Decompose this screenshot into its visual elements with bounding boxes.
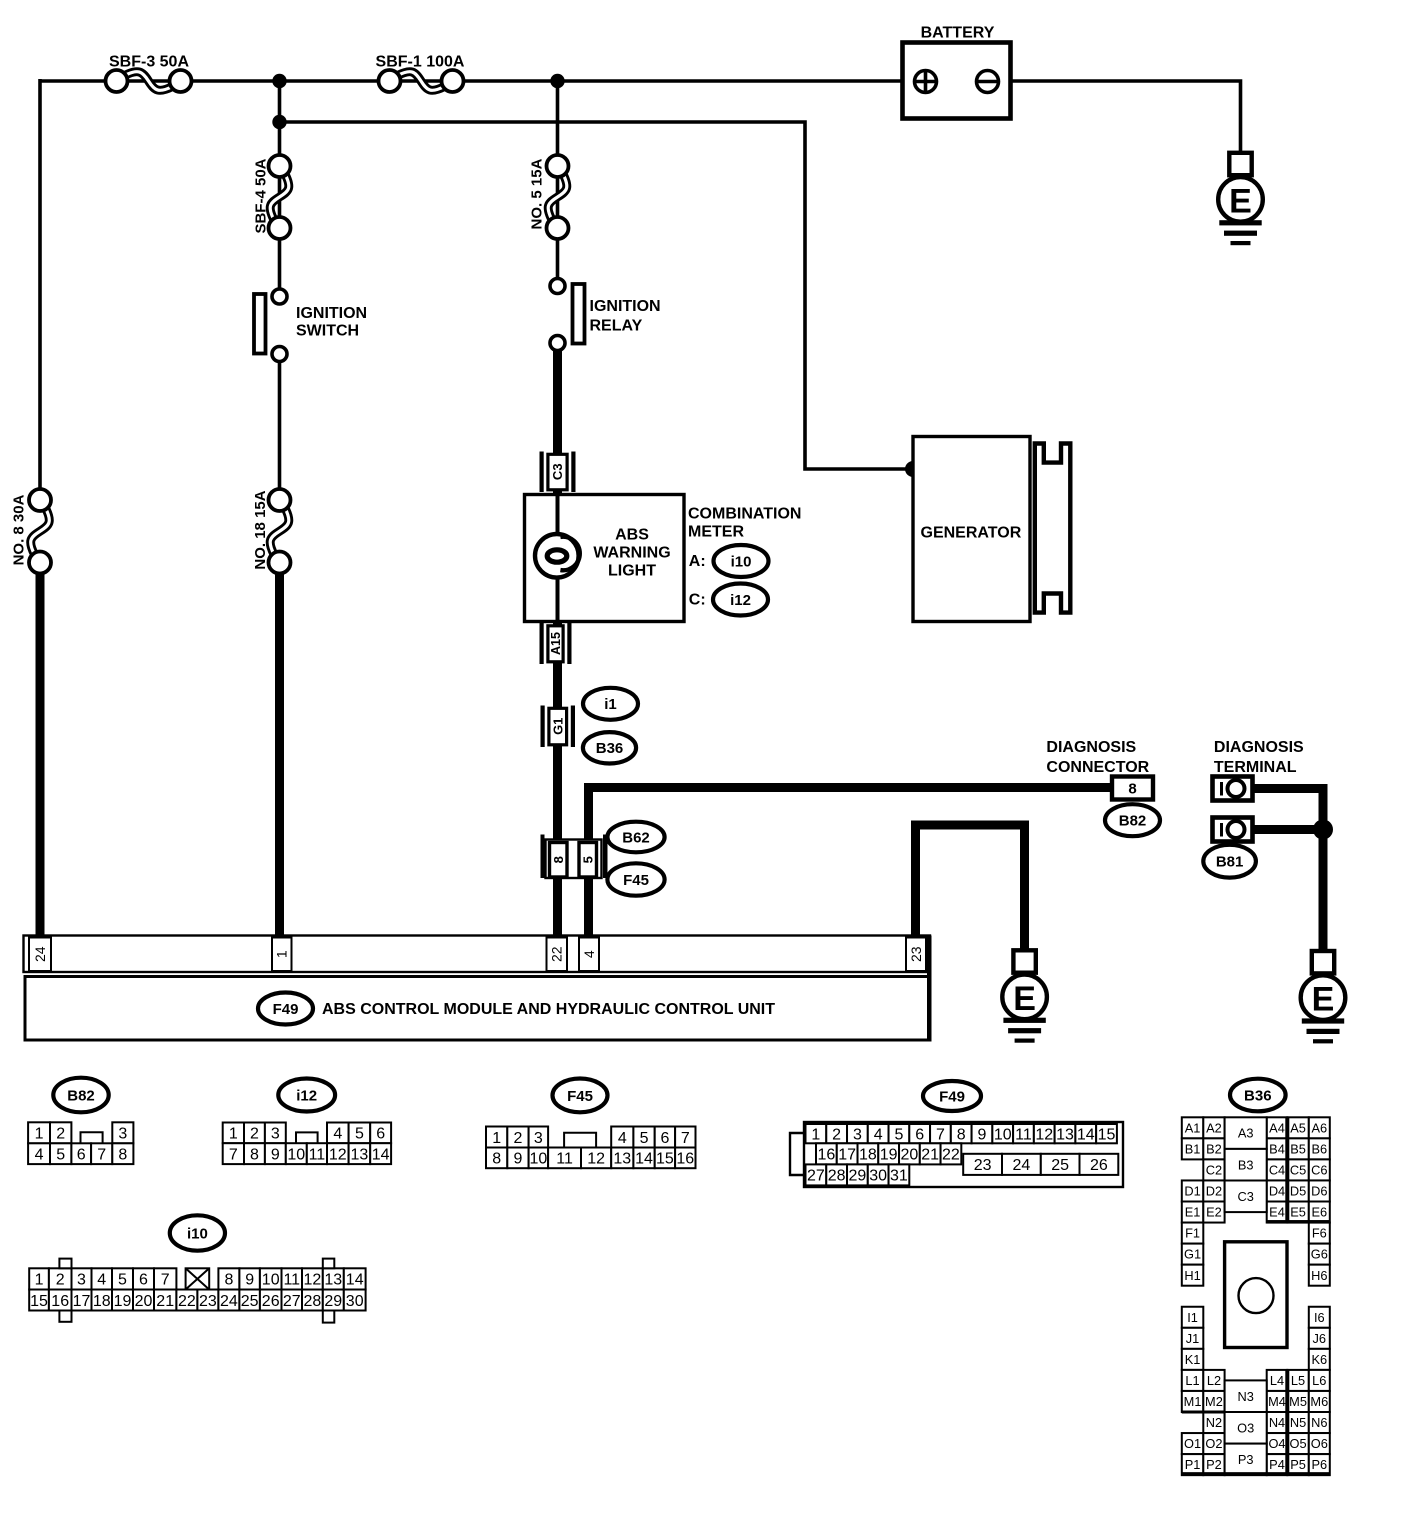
svg-text:C4: C4 [1269, 1163, 1285, 1178]
svg-text:3: 3 [118, 1126, 127, 1143]
wire: ABS warning light to module pin 22 (thick) [553, 615, 562, 938]
node C: i12 [689, 584, 768, 616]
module pin 23 [906, 938, 926, 972]
connector C3 [540, 452, 576, 493]
svg-text:P4: P4 [1269, 1457, 1285, 1472]
svg-text:29: 29 [849, 1168, 867, 1185]
svg-text:8: 8 [1128, 781, 1136, 798]
module pin 1 [272, 938, 292, 972]
svg-text:5: 5 [894, 1126, 903, 1143]
svg-text:D1: D1 [1184, 1184, 1200, 1199]
svg-text:21: 21 [921, 1147, 939, 1164]
svg-text:14: 14 [635, 1151, 653, 1168]
node F45 [607, 863, 664, 895]
connector pinout i12 oval [278, 1079, 335, 1112]
svg-text:16: 16 [676, 1151, 694, 1168]
ground (diagnosis terminal) [1301, 951, 1346, 1043]
svg-text:23: 23 [974, 1157, 992, 1174]
ground (module pin 23) [1002, 950, 1047, 1042]
connector pinout B82 grid [28, 1122, 133, 1164]
svg-text:L1: L1 [1185, 1373, 1199, 1388]
svg-text:K1: K1 [1185, 1352, 1201, 1367]
svg-text:F45: F45 [623, 872, 649, 889]
svg-text:4: 4 [333, 1126, 342, 1143]
svg-text:13: 13 [324, 1272, 342, 1289]
connector pinout F45 grid [486, 1127, 696, 1169]
svg-text:8: 8 [224, 1272, 233, 1289]
svg-text:14: 14 [372, 1146, 390, 1163]
svg-text:B81: B81 [1216, 854, 1244, 871]
svg-text:4: 4 [581, 950, 597, 958]
svg-text:1: 1 [229, 1126, 238, 1143]
svg-text:N2: N2 [1206, 1415, 1222, 1430]
svg-text:M5: M5 [1289, 1394, 1307, 1409]
svg-text:1: 1 [274, 950, 290, 958]
svg-text:NO. 8 30A: NO. 8 30A [11, 494, 28, 565]
svg-text:E2: E2 [1206, 1205, 1222, 1220]
diagnosis terminal contact 1 [1213, 777, 1253, 801]
svg-text:2: 2 [56, 1126, 65, 1143]
fuse SBF-3 50A [106, 54, 192, 93]
svg-text:22: 22 [178, 1293, 196, 1310]
connector pinout B82 oval [53, 1078, 108, 1113]
svg-text:COMBINATION: COMBINATION [688, 506, 801, 523]
svg-text:4: 4 [97, 1272, 106, 1289]
svg-text:SBF-3 50A: SBF-3 50A [109, 54, 189, 71]
fuse SBF-4 50A [252, 155, 290, 239]
svg-text:M1: M1 [1184, 1394, 1202, 1409]
svg-text:9: 9 [513, 1151, 522, 1168]
junction dot on second bus [272, 115, 286, 129]
svg-text:O2: O2 [1205, 1436, 1222, 1451]
svg-text:17: 17 [838, 1147, 856, 1164]
svg-text:8: 8 [492, 1151, 501, 1168]
svg-text:2: 2 [56, 1272, 65, 1289]
connector pinout i12 grid [223, 1123, 391, 1165]
svg-text:15: 15 [1098, 1126, 1116, 1143]
fuse SBF-1 100A [376, 54, 465, 93]
svg-text:C3: C3 [1237, 1189, 1253, 1204]
svg-text:1: 1 [492, 1130, 501, 1147]
svg-text:IGNITION: IGNITION [590, 298, 661, 315]
wire: NO.5 branch down to ignition relay [556, 81, 560, 280]
svg-text:30: 30 [346, 1293, 364, 1310]
svg-text:31: 31 [890, 1168, 908, 1185]
svg-text:5: 5 [355, 1126, 364, 1143]
wire: NO.18 fuse to module pin 1 (thick) [275, 570, 284, 938]
svg-text:3: 3 [534, 1130, 543, 1147]
connector pinout i10 grid [29, 1259, 365, 1323]
svg-text:G1: G1 [550, 718, 565, 735]
svg-text:B82: B82 [67, 1087, 95, 1104]
svg-text:12: 12 [1035, 1126, 1053, 1143]
svg-text:24: 24 [32, 946, 48, 962]
svg-text:18: 18 [859, 1147, 877, 1164]
svg-text:i12: i12 [730, 592, 751, 609]
svg-text:G6: G6 [1311, 1247, 1328, 1262]
svg-text:8: 8 [957, 1126, 966, 1143]
combination meter box with ABS warning light [525, 495, 685, 622]
connector pinout F45 oval [553, 1079, 608, 1113]
svg-text:IGNITION: IGNITION [296, 305, 367, 322]
svg-text:I6: I6 [1314, 1310, 1325, 1325]
svg-text:C3: C3 [550, 463, 565, 480]
module pin 22 [547, 938, 568, 972]
node i1 [583, 688, 638, 720]
svg-text:7: 7 [936, 1126, 945, 1143]
svg-text:RELAY: RELAY [590, 318, 643, 335]
svg-text:F6: F6 [1312, 1226, 1327, 1241]
svg-text:E: E [1013, 980, 1036, 1018]
svg-text:9: 9 [978, 1126, 987, 1143]
svg-text:8: 8 [250, 1146, 259, 1163]
svg-text:K6: K6 [1311, 1352, 1327, 1367]
wire: diagnosis connector branch (thick) [589, 788, 1113, 941]
svg-text:6: 6 [915, 1126, 924, 1143]
svg-text:7: 7 [97, 1146, 106, 1163]
svg-text:3: 3 [77, 1272, 86, 1289]
svg-text:B36: B36 [596, 740, 624, 757]
fuse NO. 18 15A [252, 489, 291, 574]
svg-text:26: 26 [262, 1293, 280, 1310]
svg-text:6: 6 [660, 1130, 669, 1147]
svg-text:ABS CONTROL MODULE AND HYDRAUL: ABS CONTROL MODULE AND HYDRAULIC CONTROL… [322, 1001, 775, 1018]
svg-text:28: 28 [304, 1293, 322, 1310]
svg-text:O6: O6 [1311, 1436, 1328, 1451]
node B36 [583, 732, 636, 763]
svg-text:SWITCH: SWITCH [296, 323, 359, 340]
svg-text:B36: B36 [1244, 1087, 1272, 1104]
svg-text:23: 23 [199, 1293, 217, 1310]
svg-text:4: 4 [35, 1146, 44, 1163]
wire: ignition switch to NO.18 fuse [278, 360, 282, 492]
svg-text:O5: O5 [1290, 1436, 1307, 1451]
svg-text:B82: B82 [1119, 813, 1147, 830]
svg-text:6: 6 [77, 1146, 86, 1163]
svg-text:28: 28 [828, 1168, 846, 1185]
svg-text:30: 30 [869, 1168, 887, 1185]
svg-text:i10: i10 [187, 1225, 208, 1242]
svg-text:25: 25 [241, 1293, 259, 1310]
svg-text:10: 10 [262, 1272, 280, 1289]
svg-text:A6: A6 [1311, 1120, 1327, 1135]
svg-text:4: 4 [874, 1126, 883, 1143]
wire: SBF-4 branch down to ignition switch [278, 122, 282, 290]
svg-text:22: 22 [942, 1147, 960, 1164]
svg-text:11: 11 [1015, 1126, 1032, 1143]
wire: second bus to generator [280, 81, 914, 469]
svg-text:J6: J6 [1313, 1331, 1327, 1346]
svg-text:5: 5 [56, 1146, 65, 1163]
wire: top battery bus [40, 79, 915, 83]
svg-text:9: 9 [271, 1146, 280, 1163]
svg-text:16: 16 [51, 1293, 69, 1310]
svg-text:D5: D5 [1290, 1184, 1306, 1199]
svg-text:B6: B6 [1311, 1141, 1327, 1156]
svg-text:N3: N3 [1237, 1389, 1253, 1404]
junction dot at SBF-4 branch [272, 74, 286, 88]
svg-text:G1: G1 [1184, 1247, 1201, 1262]
svg-text:27: 27 [283, 1293, 301, 1310]
svg-text:17: 17 [73, 1293, 91, 1310]
svg-text:DIAGNOSIS: DIAGNOSIS [1046, 739, 1136, 756]
svg-text:C6: C6 [1311, 1163, 1327, 1178]
svg-text:I1: I1 [1187, 1310, 1198, 1325]
ground (battery) [1218, 153, 1263, 245]
svg-text:P6: P6 [1311, 1457, 1327, 1472]
svg-text:B4: B4 [1269, 1141, 1285, 1156]
svg-text:D6: D6 [1311, 1184, 1327, 1199]
module pin 4 [579, 938, 599, 972]
svg-text:F49: F49 [273, 1001, 299, 1018]
svg-text:22: 22 [549, 946, 565, 962]
svg-text:18: 18 [93, 1293, 111, 1310]
svg-text:N4: N4 [1269, 1415, 1285, 1430]
svg-text:A4: A4 [1269, 1120, 1285, 1135]
svg-text:NO. 18 15A: NO. 18 15A [252, 490, 269, 569]
svg-text:DIAGNOSIS: DIAGNOSIS [1214, 739, 1304, 756]
wire: diagnosis terminal 2 to junction (thick) [1252, 825, 1323, 834]
connector pinout F49 oval [923, 1081, 981, 1111]
svg-text:C2: C2 [1206, 1163, 1222, 1178]
svg-text:P3: P3 [1238, 1452, 1254, 1467]
connector pinout F49 grid [790, 1122, 1123, 1187]
svg-text:F1: F1 [1185, 1226, 1200, 1241]
svg-text:21: 21 [156, 1293, 174, 1310]
svg-text:3: 3 [271, 1126, 280, 1143]
svg-text:A15: A15 [549, 632, 563, 655]
svg-text:9: 9 [245, 1272, 254, 1289]
svg-text:5: 5 [118, 1272, 127, 1289]
svg-text:B62: B62 [622, 829, 650, 846]
svg-text:D2: D2 [1206, 1184, 1222, 1199]
wire: NO.8 fuse to module pin 24 (thick) [36, 570, 45, 938]
wire: ignition relay to ABS warning light (thick) [553, 350, 562, 500]
junction dot at diagnosis terminal 2 [1313, 820, 1333, 840]
svg-text:10: 10 [529, 1151, 547, 1168]
connector pinout i10 oval [170, 1215, 225, 1250]
svg-text:8: 8 [551, 856, 566, 863]
connector A15 [540, 623, 572, 664]
svg-text:26: 26 [1090, 1157, 1108, 1174]
connector pinout B36 oval [1230, 1079, 1286, 1112]
svg-text:1: 1 [811, 1126, 820, 1143]
svg-text:N6: N6 [1311, 1415, 1327, 1430]
diagnosis connector label [1046, 739, 1149, 776]
svg-text:O4: O4 [1268, 1436, 1285, 1451]
svg-text:P2: P2 [1206, 1457, 1222, 1472]
svg-text:N5: N5 [1290, 1415, 1306, 1430]
svg-text:24: 24 [1013, 1157, 1031, 1174]
svg-text:i12: i12 [296, 1087, 317, 1104]
wire: battery minus to ground [998, 81, 1241, 153]
svg-text:GENERATOR: GENERATOR [921, 525, 1022, 542]
svg-text:11: 11 [283, 1272, 300, 1289]
svg-text:H6: H6 [1311, 1268, 1327, 1283]
svg-text:M6: M6 [1310, 1394, 1328, 1409]
svg-text:13: 13 [351, 1146, 369, 1163]
svg-text:F49: F49 [939, 1088, 965, 1105]
svg-text:H1: H1 [1184, 1268, 1200, 1283]
svg-text:M2: M2 [1205, 1394, 1223, 1409]
svg-text:B1: B1 [1185, 1141, 1201, 1156]
svg-text:E5: E5 [1290, 1205, 1306, 1220]
svg-text:29: 29 [324, 1293, 342, 1310]
svg-text:ABS: ABS [615, 527, 649, 544]
svg-text:6: 6 [139, 1272, 148, 1289]
svg-text:O3: O3 [1237, 1420, 1254, 1435]
generator [913, 437, 1070, 622]
svg-text:14: 14 [346, 1272, 364, 1289]
svg-text:1: 1 [35, 1272, 44, 1289]
svg-text:B3: B3 [1238, 1157, 1254, 1172]
diagnosis terminal label [1214, 739, 1304, 776]
svg-text:15: 15 [656, 1151, 674, 1168]
svg-text:F45: F45 [567, 1088, 593, 1105]
svg-text:E: E [1312, 981, 1335, 1019]
svg-text:E: E [1229, 182, 1252, 220]
svg-text:11: 11 [556, 1151, 573, 1168]
svg-text:P5: P5 [1290, 1457, 1306, 1472]
svg-text:L5: L5 [1291, 1373, 1305, 1388]
node A: i10 [689, 545, 769, 577]
wire: diagnosis terminal 1 to ground (thick) [1252, 789, 1323, 952]
svg-text:8: 8 [118, 1146, 127, 1163]
fuse NO. 8 30A [11, 489, 51, 574]
node B62 [607, 822, 664, 853]
svg-text:5: 5 [640, 1130, 649, 1147]
svg-text:E4: E4 [1269, 1205, 1285, 1220]
svg-text:A5: A5 [1290, 1120, 1306, 1135]
svg-text:TERMINAL: TERMINAL [1214, 759, 1297, 776]
svg-text:BATTERY: BATTERY [921, 25, 995, 42]
svg-text:E6: E6 [1311, 1205, 1327, 1220]
ignition switch [254, 289, 367, 362]
ignition relay [550, 279, 661, 351]
junction dot at generator input [905, 461, 921, 477]
svg-text:i10: i10 [731, 553, 752, 570]
module designator F49 [258, 993, 313, 1025]
svg-text:10: 10 [287, 1146, 305, 1163]
wire: left branch down to NO.8 fuse [38, 79, 42, 490]
svg-text:C:: C: [689, 592, 706, 609]
svg-text:23: 23 [908, 946, 924, 962]
node B82 [1105, 804, 1160, 836]
svg-text:20: 20 [901, 1147, 919, 1164]
svg-text:L4: L4 [1270, 1373, 1284, 1388]
svg-text:2: 2 [250, 1126, 259, 1143]
svg-text:WARNING: WARNING [593, 545, 670, 562]
svg-text:14: 14 [1077, 1126, 1095, 1143]
combination meter label [688, 506, 801, 541]
svg-text:13: 13 [1056, 1126, 1074, 1143]
svg-text:SBF-1 100A: SBF-1 100A [376, 54, 465, 71]
svg-text:A1: A1 [1185, 1120, 1201, 1135]
svg-text:27: 27 [807, 1168, 825, 1185]
svg-text:NO. 5 15A: NO. 5 15A [528, 158, 545, 229]
svg-text:1: 1 [35, 1126, 44, 1143]
svg-text:12: 12 [329, 1146, 347, 1163]
svg-text:C5: C5 [1290, 1163, 1306, 1178]
svg-text:7: 7 [161, 1272, 170, 1289]
wire: module pin 23 to ground (thick) [916, 825, 1025, 951]
svg-text:A3: A3 [1238, 1126, 1254, 1141]
svg-text:3: 3 [853, 1126, 862, 1143]
svg-text:A:: A: [689, 553, 706, 570]
svg-text:SBF-4 50A: SBF-4 50A [252, 158, 269, 233]
diagnosis terminal contact 2 [1213, 818, 1253, 842]
svg-text:20: 20 [135, 1293, 153, 1310]
svg-text:i1: i1 [604, 696, 617, 713]
svg-text:2: 2 [832, 1126, 841, 1143]
svg-text:O1: O1 [1184, 1436, 1201, 1451]
junction dot at NO.5 branch [550, 74, 564, 88]
svg-text:7: 7 [681, 1130, 690, 1147]
connector pinout B36 grid [1182, 1117, 1330, 1475]
svg-text:10: 10 [994, 1126, 1012, 1143]
svg-text:B2: B2 [1206, 1141, 1222, 1156]
battery [903, 25, 1011, 119]
svg-text:D4: D4 [1269, 1184, 1285, 1199]
svg-text:24: 24 [220, 1293, 238, 1310]
svg-text:6: 6 [376, 1126, 385, 1143]
svg-text:16: 16 [817, 1147, 835, 1164]
diagnosis connector pin 8 [1112, 777, 1153, 800]
svg-text:25: 25 [1051, 1157, 1069, 1174]
svg-text:7: 7 [229, 1146, 238, 1163]
module pin 24 [29, 938, 51, 972]
svg-text:12: 12 [304, 1272, 322, 1289]
svg-text:E1: E1 [1185, 1205, 1201, 1220]
fuse NO. 5 15A [528, 155, 568, 239]
svg-text:CONNECTOR: CONNECTOR [1046, 759, 1149, 776]
connector pins 8/5 [541, 835, 608, 879]
svg-text:2: 2 [513, 1130, 522, 1147]
svg-text:11: 11 [309, 1146, 326, 1163]
svg-text:19: 19 [114, 1293, 132, 1310]
node B81 [1203, 845, 1256, 878]
svg-text:P1: P1 [1185, 1457, 1201, 1472]
svg-text:A2: A2 [1206, 1120, 1222, 1135]
svg-text:5: 5 [580, 856, 595, 863]
connector G1 [541, 706, 576, 748]
svg-text:19: 19 [880, 1147, 898, 1164]
svg-text:L6: L6 [1312, 1373, 1326, 1388]
svg-text:15: 15 [30, 1293, 48, 1310]
svg-text:METER: METER [688, 524, 744, 541]
svg-text:4: 4 [618, 1130, 627, 1147]
svg-text:12: 12 [587, 1151, 605, 1168]
ABS control module and hydraulic control unit [24, 936, 932, 1041]
svg-text:B5: B5 [1290, 1141, 1306, 1156]
svg-text:M4: M4 [1268, 1394, 1286, 1409]
svg-text:L2: L2 [1207, 1373, 1221, 1388]
svg-text:J1: J1 [1186, 1331, 1200, 1346]
svg-text:LIGHT: LIGHT [608, 563, 656, 580]
svg-text:13: 13 [613, 1151, 631, 1168]
